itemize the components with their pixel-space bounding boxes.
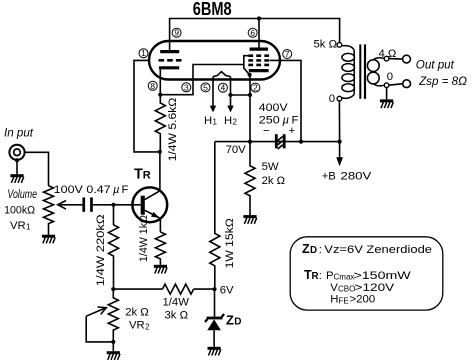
node 70V <box>248 140 252 144</box>
svg-text:+: + <box>289 125 295 137</box>
svg-text:9: 9 <box>174 28 179 38</box>
svg-text:D: D <box>310 245 317 256</box>
svg-text:In put: In put <box>4 126 34 139</box>
svg-text:1: 1 <box>213 118 218 127</box>
node +B junction <box>338 140 342 144</box>
svg-text:7: 7 <box>285 49 290 59</box>
svg-text:6V: 6V <box>220 285 234 297</box>
svg-text:2: 2 <box>233 118 238 127</box>
svg-text:280V: 280V <box>341 170 372 182</box>
node shield-cathode <box>248 73 252 77</box>
svg-text:µ: µ <box>283 114 290 126</box>
ground cathode resistor <box>243 217 256 224</box>
svg-text:400V: 400V <box>259 102 288 114</box>
svg-text:2k Ω: 2k Ω <box>262 175 286 187</box>
svg-text::: : <box>319 244 322 256</box>
svg-text:T: T <box>134 166 143 182</box>
node pin8 <box>158 93 162 97</box>
capacitor C2 250uF electrolytic <box>259 102 299 149</box>
svg-text:3: 3 <box>184 82 189 92</box>
svg-text:Z: Z <box>302 242 310 256</box>
transformer T1 core <box>359 44 366 98</box>
wire pin 8 cathode down <box>159 69 161 94</box>
svg-text:P: P <box>326 270 334 282</box>
wire primary 0 to +B <box>338 101 340 142</box>
svg-text:1/4W 1kΩ: 1/4W 1kΩ <box>138 215 150 262</box>
wire pin 2 cathode down to 70V <box>249 75 251 142</box>
transformer T1 primary terminal 5k <box>314 39 342 51</box>
wire 3k to 6V node <box>194 288 215 290</box>
transistor TR <box>132 152 167 232</box>
wire bias rail <box>113 288 162 290</box>
svg-text:+B: +B <box>322 170 336 182</box>
resistor 1k emitter <box>138 215 165 265</box>
wire pin 1 grid to collector node <box>134 60 160 151</box>
svg-text:VR: VR <box>10 220 26 232</box>
svg-text:F: F <box>122 184 129 196</box>
wire VR2 to ground <box>112 342 114 351</box>
wire jack ground stem <box>16 160 18 174</box>
svg-text:0: 0 <box>387 71 393 83</box>
pin label 9 <box>172 28 181 38</box>
wire pin 6 to pentode plate <box>258 19 260 51</box>
resistor 2k 5W cathode <box>245 142 285 216</box>
svg-text:6: 6 <box>250 28 255 38</box>
svg-text:8: 8 <box>150 81 155 91</box>
svg-text:2k Ω: 2k Ω <box>125 306 149 318</box>
svg-text:250: 250 <box>259 114 280 126</box>
svg-text:CBO: CBO <box>338 285 355 294</box>
svg-text:>120V: >120V <box>355 282 395 294</box>
pin label 3 <box>182 82 191 92</box>
pin label 1 <box>139 48 148 58</box>
node 220k bottom <box>111 287 115 291</box>
triode grid (pin 1) <box>159 59 182 62</box>
wiper arrow VR2 <box>86 307 113 342</box>
transformer secondary terminal 0 <box>384 71 393 87</box>
pentode internal shield bracket <box>244 56 250 75</box>
pentode grid row g3 <box>248 54 269 57</box>
wire top rail from triode plate to transformer primary <box>170 19 340 54</box>
pin label 7 <box>283 49 292 59</box>
pentode grid row g2 <box>248 59 269 62</box>
node junction pin6 top <box>257 16 261 20</box>
output terminal hot <box>403 55 411 63</box>
svg-text:1: 1 <box>141 48 146 58</box>
wire +B drop arrow <box>322 142 372 183</box>
wire cap to base <box>93 204 141 206</box>
pin label 5 <box>201 82 210 92</box>
wire heater to pin2 <box>231 94 251 96</box>
potentiometer VR1 volume <box>4 186 53 235</box>
svg-text:1W 15kΩ: 1W 15kΩ <box>224 218 236 268</box>
pin label 2 <box>251 83 260 93</box>
transformer T1 secondary winding <box>367 58 384 86</box>
node screen junction <box>299 140 303 144</box>
wire 0 to output <box>389 84 403 86</box>
node collector junction <box>158 150 162 154</box>
output terminal return <box>403 80 411 88</box>
svg-text:Out put: Out put <box>416 58 455 71</box>
ground VR2 <box>107 353 120 360</box>
pentode plate (pin 6) <box>250 47 268 50</box>
wire pin 7 screen to +B <box>270 60 301 141</box>
zener diode ZD <box>205 289 242 347</box>
input jack J1 <box>4 126 34 162</box>
svg-text:100kΩ: 100kΩ <box>4 205 35 217</box>
triode plate (pin 9) <box>160 50 179 53</box>
potentiometer VR2 <box>108 289 150 342</box>
heater filament chevron <box>213 72 231 77</box>
svg-text:Volume: Volume <box>7 188 37 201</box>
node pin2 heater tie <box>248 93 252 97</box>
transformer T1 primary winding <box>342 46 355 99</box>
resistor 220k <box>95 205 118 289</box>
pentode grid row g1 <box>248 64 269 67</box>
wire pin8 to pin3 <box>160 65 244 95</box>
output labels <box>416 58 467 88</box>
svg-text:4: 4 <box>221 83 226 93</box>
node heater-cathode tie <box>228 93 232 97</box>
ground secondary <box>380 101 393 108</box>
svg-text:2: 2 <box>145 322 150 331</box>
tube label 6BM8 <box>193 0 232 19</box>
heater leg pin5 H1 <box>204 77 218 127</box>
wire jack to volume pot <box>25 152 49 186</box>
svg-text:1/4W 5.6kΩ: 1/4W 5.6kΩ <box>167 98 179 162</box>
svg-text:1/4W: 1/4W <box>163 297 190 309</box>
wiper arrow VR1 <box>58 201 83 210</box>
pentode cathode <box>249 69 269 72</box>
svg-text::: : <box>319 270 322 282</box>
transformer T1 primary terminal 0 <box>329 93 342 105</box>
node base junction <box>111 203 115 207</box>
svg-text:Zsp = 8Ω: Zsp = 8Ω <box>418 75 467 88</box>
ground zener <box>208 348 221 355</box>
svg-text:3k Ω: 3k Ω <box>165 309 189 321</box>
svg-text:2: 2 <box>253 83 258 93</box>
wire 4ohm to output <box>389 58 403 61</box>
heater leg pin4 H2 <box>224 77 238 127</box>
svg-text:µ: µ <box>113 184 120 196</box>
info box <box>290 237 443 310</box>
svg-text:>200: >200 <box>350 294 376 306</box>
svg-text:6BM8: 6BM8 <box>193 0 232 19</box>
pin label 8 <box>148 81 157 91</box>
svg-text:FE: FE <box>339 296 349 305</box>
svg-text:70V: 70V <box>226 144 247 156</box>
wire 70V rail <box>215 141 340 143</box>
svg-text:5: 5 <box>203 82 208 92</box>
ground input jack <box>10 176 23 183</box>
svg-text:H: H <box>224 115 232 127</box>
triode cathode (pin 8) <box>159 66 179 69</box>
svg-text:Vz=6V Zenerdiode: Vz=6V Zenerdiode <box>324 244 432 256</box>
node 6V <box>212 287 216 291</box>
pin label 4 <box>218 83 227 93</box>
capacitor C1 0.47uF <box>54 184 129 212</box>
node VR2 bottom <box>111 340 115 344</box>
svg-text:VR: VR <box>129 320 145 332</box>
resistor 3k <box>162 284 193 321</box>
ground emitter resistor <box>154 266 167 273</box>
svg-text:H: H <box>330 294 338 306</box>
svg-text:5W: 5W <box>262 161 279 173</box>
pin label 6 <box>248 28 257 38</box>
svg-text:F: F <box>292 114 299 126</box>
svg-text:>150mW: >150mW <box>354 270 412 282</box>
svg-text:R: R <box>312 271 319 282</box>
transformer secondary terminal 4ohm <box>379 48 397 61</box>
resistor 15k 1W <box>210 142 236 290</box>
resistor 5.6k <box>155 95 179 162</box>
ground volume pot <box>42 236 55 243</box>
svg-text:0: 0 <box>329 93 335 105</box>
svg-text:R: R <box>143 169 151 181</box>
svg-text:1/4W 220kΩ: 1/4W 220kΩ <box>95 214 107 286</box>
svg-text:Z: Z <box>226 313 234 328</box>
wire secondary ground stem <box>386 88 388 100</box>
svg-text:Cmax: Cmax <box>334 273 355 282</box>
svg-text:1: 1 <box>26 223 31 232</box>
svg-text:−: − <box>263 126 270 138</box>
svg-text:5k Ω: 5k Ω <box>314 39 338 51</box>
svg-text:H: H <box>204 115 212 127</box>
svg-text:D: D <box>234 317 241 328</box>
tube U1 envelope <box>149 41 280 80</box>
svg-text:100V 0.47: 100V 0.47 <box>54 184 111 196</box>
